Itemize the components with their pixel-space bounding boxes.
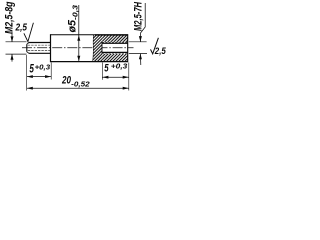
body outline — [51, 34, 96, 36]
internal hole bore lines — [102, 42, 128, 44]
svg-text:20: 20 — [61, 75, 71, 87]
dim 5+0,3 left: ext lines — [26, 55, 28, 91]
dim 5+0,3 right: line + arrows — [102, 76, 129, 78]
svg-text:M2,5-8g: M2,5-8g — [3, 1, 15, 34]
dim Ø5-0,3 dimension line + arrows — [78, 5, 80, 61]
hatch section solid block — [93, 35, 102, 61]
svg-text:2,5: 2,5 — [154, 46, 167, 56]
stub end face — [26, 44, 28, 52]
svg-text:2,5: 2,5 — [15, 23, 28, 34]
dim M2,5-8g dimension line + arrows — [11, 32, 13, 43]
section break wavy line — [93, 35, 94, 61]
internal thread major thin lines — [102, 41, 128, 43]
svg-text:-0,52: -0,52 — [71, 80, 90, 89]
dim M2,5-7H dimension line + arrows — [140, 3, 145, 65]
stub chamfers — [27, 43, 29, 45]
roughness mark right 2,5 — [151, 38, 159, 54]
thread end line — [101, 42, 103, 53]
dim M2,5-7H ext lines — [129, 41, 147, 43]
dim M2,5-8g ext lines — [6, 41, 27, 43]
centerline (axis) — [22, 47, 134, 49]
hatch band above hole — [102, 35, 127, 42]
dim 5+0,3 right: ext lines — [101, 63, 103, 80]
stub (external thread) outline — [29, 42, 51, 44]
stub thread minor thin lines — [28, 44, 51, 46]
svg-text:5: 5 — [29, 61, 34, 75]
dim 20-0,52: line + arrows — [27, 87, 129, 89]
svg-text:5: 5 — [104, 62, 109, 74]
svg-text:+0,3: +0,3 — [111, 62, 128, 71]
hatch band below hole — [102, 54, 127, 62]
svg-text:M2,5-7H: M2,5-7H — [132, 1, 144, 31]
svg-text:+0,3: +0,3 — [35, 65, 51, 72]
dim 5+0,3 left: line + arrows — [27, 76, 52, 78]
